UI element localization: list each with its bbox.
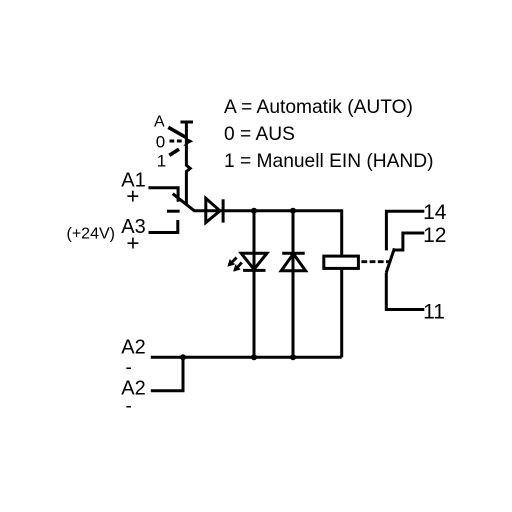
svg-text:-: -: [126, 358, 132, 379]
svg-text:12: 12: [423, 224, 446, 247]
svg-text:A = Automatik (AUTO): A = Automatik (AUTO): [224, 97, 413, 118]
svg-text:1: 1: [157, 151, 166, 170]
svg-text:A: A: [154, 114, 165, 131]
svg-text:0: 0: [156, 133, 165, 152]
svg-text:A2: A2: [121, 337, 145, 359]
svg-text:11: 11: [423, 301, 445, 324]
svg-text:14: 14: [423, 201, 447, 224]
svg-text:-: -: [126, 396, 132, 417]
svg-text:0 = AUS: 0 = AUS: [224, 124, 295, 145]
svg-text:+: +: [126, 184, 139, 209]
svg-text:(+24V): (+24V): [67, 225, 115, 242]
svg-text:1 = Manuell EIN (HAND): 1 = Manuell EIN (HAND): [224, 151, 434, 172]
svg-text:+: +: [126, 230, 139, 255]
